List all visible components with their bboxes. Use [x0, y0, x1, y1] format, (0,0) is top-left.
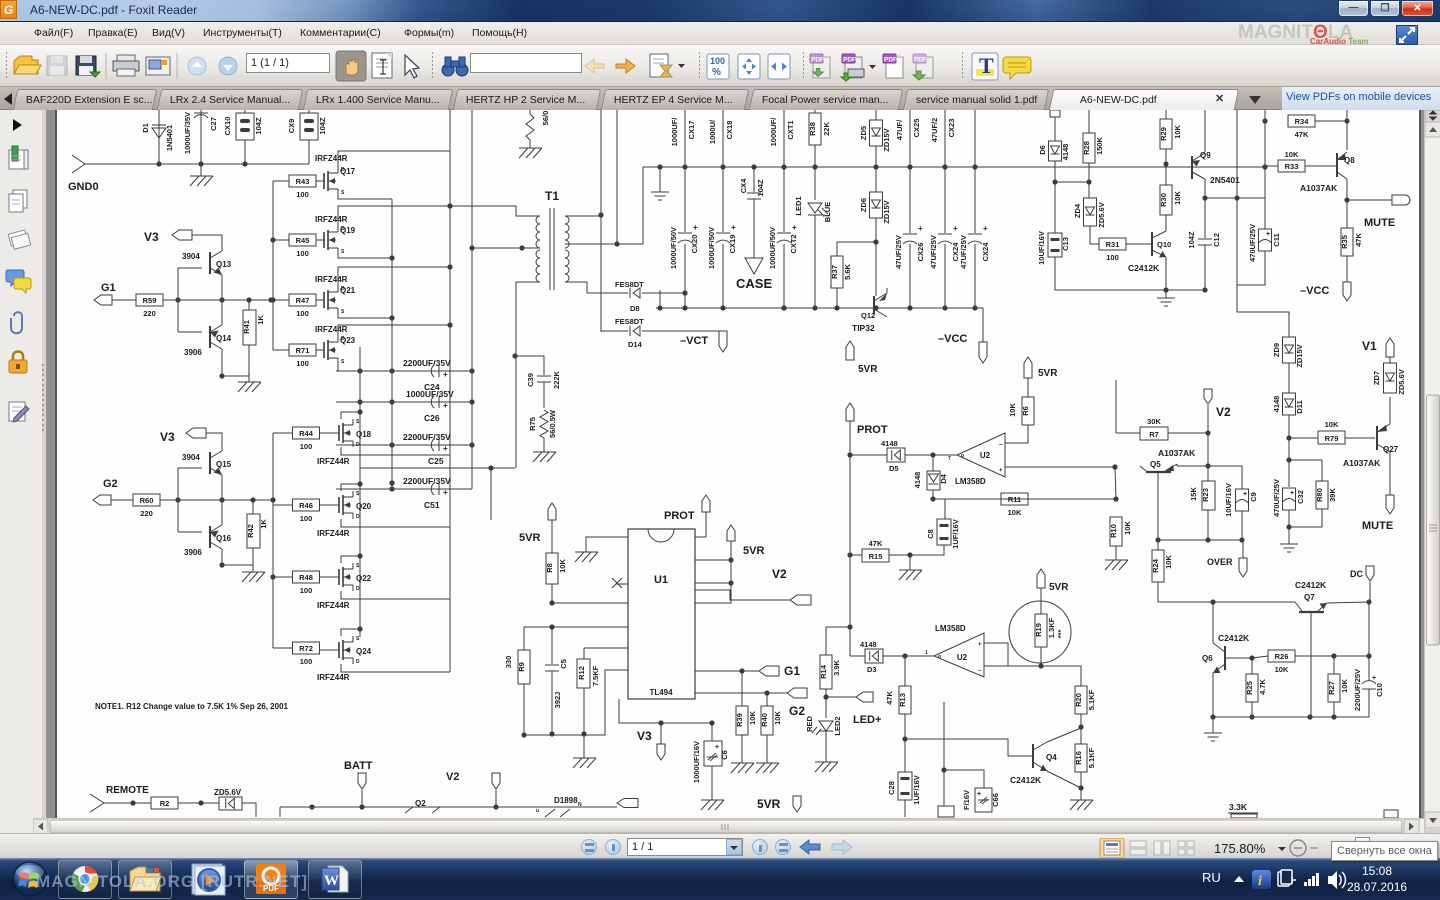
- pin 5VR bottom: [793, 796, 801, 812]
- svg-text:1N5401: 1N5401: [165, 125, 174, 151]
- resistor bottom partial: [1228, 813, 1258, 818]
- svg-text:10K: 10K: [1325, 420, 1339, 429]
- earth ground x660: [651, 192, 669, 200]
- capacitor C5: [545, 627, 568, 734]
- svg-text:LM358D: LM358D: [955, 477, 986, 486]
- print preview: [146, 57, 170, 75]
- svg-text:5.6K: 5.6K: [843, 263, 852, 279]
- svg-text:W: W: [324, 873, 339, 889]
- junction C51 row b: [389, 486, 394, 491]
- svg-text:+: +: [715, 744, 719, 751]
- hand tool pressed: [336, 51, 366, 81]
- junction y602 Q6: [1210, 599, 1215, 604]
- label Q12: [861, 311, 875, 320]
- svg-text:G2: G2: [789, 704, 805, 718]
- svg-text:–: –: [978, 668, 982, 674]
- resistor R31: [1099, 238, 1126, 262]
- transistor Q9: [1166, 110, 1205, 198]
- junction R2 ZD: [198, 800, 203, 805]
- label Q6: [1202, 654, 1213, 663]
- diode D14: [601, 326, 720, 336]
- pin G1: [94, 295, 112, 305]
- svg-text:S: S: [341, 190, 345, 196]
- junction C26 row b: [389, 399, 394, 404]
- label G2 U1: [789, 704, 805, 718]
- diode D11: [1283, 393, 1296, 415]
- pin V1: [1386, 338, 1394, 357]
- wire Q21 drain: [338, 267, 450, 286]
- svg-text:175.80%: 175.80%: [1214, 841, 1266, 856]
- resistor R79: [1289, 420, 1375, 444]
- fit page: [738, 54, 760, 79]
- svg-text:Q15: Q15: [216, 460, 232, 469]
- resistor R40: [760, 693, 782, 763]
- svg-text:5VR: 5VR: [858, 364, 878, 375]
- svg-text:GND0: GND0: [68, 181, 99, 193]
- svg-text:A1037AK: A1037AK: [1158, 448, 1196, 458]
- resistor R80: [1315, 481, 1337, 509]
- junction R29 Q9 base: [1163, 161, 1168, 166]
- capacitor CX26 column: [894, 110, 925, 308]
- label D8: [630, 304, 640, 313]
- svg-text:C27: C27: [209, 117, 218, 131]
- capacitor C28: [887, 739, 921, 817]
- transistor Q21: [316, 286, 345, 315]
- wire R15 gnd stub: [909, 555, 911, 570]
- wire OVER stub: [1242, 540, 1244, 558]
- junction y735 R9: [521, 732, 526, 737]
- junction C26 row a: [357, 399, 362, 404]
- zener ZD9 labels: [1272, 343, 1304, 368]
- wire x660 gnd stub: [659, 167, 661, 192]
- svg-text:10K: 10K: [1173, 125, 1182, 139]
- junction y717 c: [1307, 714, 1312, 719]
- wire U1 gnd: [586, 537, 628, 552]
- capacitor C12: [1187, 198, 1221, 290]
- label Q23: [340, 336, 356, 345]
- label C51 value: [403, 476, 451, 486]
- junction Q14-R41 bottom: [219, 373, 224, 378]
- junction R14 LED2: [823, 694, 828, 699]
- label LM358D U2b: [935, 624, 966, 633]
- taskbar: [0, 858, 1440, 900]
- svg-text:Q19: Q19: [340, 226, 356, 235]
- svg-text:4148: 4148: [860, 640, 877, 649]
- label 3904 Q13: [182, 252, 200, 261]
- label 4148 D5: [881, 439, 898, 448]
- junction y735 R12: [581, 731, 586, 736]
- junction x360 Q22: [357, 553, 362, 558]
- svg-text:1UF/16V: 1UF/16V: [951, 519, 960, 549]
- svg-text:R25: R25: [1245, 681, 1254, 695]
- capacitor C32: [1272, 479, 1305, 517]
- svg-text:R15: R15: [869, 552, 883, 561]
- junction R34 left: [1262, 118, 1267, 123]
- svg-text:Q8: Q8: [1344, 156, 1355, 165]
- svg-text:100: 100: [1106, 253, 1119, 262]
- junction CXT2 bus1: [781, 164, 786, 169]
- pin PROT: [846, 403, 854, 421]
- svg-text:47K: 47K: [1354, 233, 1363, 247]
- wire Q9-x1237: [1205, 197, 1265, 199]
- wire Q19 drain: [338, 206, 450, 226]
- capacitor C8: [910, 499, 960, 555]
- svg-text:R26: R26: [1275, 652, 1289, 661]
- wire Q14 collector join: [221, 300, 223, 321]
- label D3: [867, 665, 877, 674]
- svg-text:FES8DT: FES8DT: [615, 317, 644, 326]
- resistor R39: [735, 671, 757, 763]
- wire drain bus x450: [449, 110, 451, 468]
- svg-text:R40: R40: [760, 713, 769, 727]
- node REMOTE: [90, 785, 149, 812]
- printer: [113, 55, 139, 76]
- junction D5 U2 out: [930, 452, 935, 457]
- junction Q15 emitter: [219, 497, 224, 502]
- earth ground Q6: [1204, 733, 1222, 741]
- capacitor C9: [1208, 466, 1258, 517]
- diode LED1: [794, 167, 832, 308]
- wire Q20 source: [341, 484, 360, 491]
- svg-text:R43: R43: [296, 177, 310, 186]
- pin 5VR R6: [1024, 357, 1032, 378]
- pdf blank: [883, 54, 903, 78]
- label V2 right: [1216, 405, 1231, 419]
- svg-text:1000UF/50V: 1000UF/50V: [768, 227, 777, 269]
- wire U2b out: [905, 655, 934, 657]
- pdf printer: [841, 54, 876, 81]
- svg-text:5.1KF: 5.1KF: [1087, 689, 1096, 710]
- junction CX4 bus1: [751, 164, 756, 169]
- svg-text:CX9: CX9: [287, 119, 296, 134]
- svg-text:22K: 22K: [822, 122, 831, 136]
- wire x1237 vertical: [1237, 110, 1289, 337]
- svg-text:C25: C25: [428, 456, 444, 466]
- label C2412K Q4: [1010, 775, 1042, 785]
- wire V2 pin down: [1207, 405, 1209, 466]
- wire cap right bus x472: [471, 110, 473, 489]
- svg-text:R2: R2: [160, 799, 170, 808]
- svg-text:104Z: 104Z: [318, 117, 327, 135]
- svg-text:D: D: [356, 659, 360, 665]
- svg-text:V1: V1: [1362, 339, 1377, 353]
- svg-text:3906: 3906: [184, 548, 202, 557]
- wire x660 bus2 stub: [659, 290, 661, 308]
- svg-text:R38: R38: [808, 122, 817, 136]
- transistor Q27: [1377, 397, 1390, 495]
- svg-text:10K: 10K: [1275, 665, 1289, 674]
- op-amp U2b: [925, 633, 984, 677]
- svg-text:PDF: PDF: [914, 57, 927, 64]
- label Q7: [1304, 593, 1315, 602]
- junction C32 R80: [1286, 457, 1291, 462]
- svg-text:+: +: [983, 224, 988, 233]
- label C24: [424, 382, 440, 392]
- svg-text:R75: R75: [528, 417, 537, 431]
- junction R8 bottom: [549, 600, 554, 605]
- wire ZD6: [875, 167, 877, 242]
- junction C10 top node: [1366, 653, 1371, 658]
- svg-text:T1: T1: [545, 189, 559, 203]
- wire R12 gnd: [583, 735, 585, 758]
- ground below C27: [190, 176, 213, 186]
- ground below R75: [533, 452, 556, 462]
- svg-text:+: +: [999, 468, 1003, 474]
- svg-text:N: N: [578, 802, 582, 808]
- svg-text:DC: DC: [1350, 569, 1363, 579]
- svg-text:1000UF/50V: 1000UF/50V: [707, 227, 716, 269]
- earth ground C32: [1280, 544, 1298, 552]
- resistor R7: [1116, 417, 1208, 440]
- svg-text:ZD7: ZD7: [1372, 371, 1381, 385]
- svg-text:47UF/25V: 47UF/25V: [929, 235, 938, 269]
- svg-text:V3: V3: [637, 729, 652, 743]
- resistor R9: [504, 650, 530, 735]
- pin R8 5VR: [548, 503, 556, 520]
- resistor R8: [545, 520, 567, 603]
- label G2: [103, 478, 118, 490]
- junction base Q13Q14: [175, 297, 180, 302]
- junction T1 sec tap: [614, 241, 619, 246]
- junction V3 line: [658, 720, 663, 725]
- svg-text:OVER: OVER: [1207, 557, 1233, 567]
- pin V2 right: [1204, 389, 1212, 404]
- wire source bus x392: [391, 199, 393, 489]
- svg-text:10K: 10K: [1164, 555, 1173, 569]
- svg-text:RED: RED: [805, 716, 814, 732]
- label DC: [1350, 569, 1363, 579]
- svg-text:D5: D5: [889, 464, 899, 473]
- junction CX24b bus1: [972, 164, 977, 169]
- wire Q24 source: [341, 629, 360, 636]
- wire R47 left: [273, 299, 289, 301]
- svg-text:Q20: Q20: [356, 502, 372, 511]
- wire PROT vertical: [849, 421, 851, 656]
- svg-text:C8: C8: [926, 529, 935, 539]
- junction CX19 bus1: [720, 164, 725, 169]
- pin LED+: [856, 692, 873, 702]
- svg-text:+: +: [443, 488, 448, 497]
- pin 5VR R19: [1037, 569, 1045, 588]
- label Q4: [1046, 753, 1057, 762]
- junction CX24 bus1: [942, 164, 947, 169]
- pin D1898 flag: [617, 799, 638, 808]
- label Q10: [1157, 240, 1171, 249]
- junction D6 R28: [1052, 179, 1057, 184]
- svg-text:CX23: CX23: [947, 119, 956, 138]
- wire Q4 base line: [905, 739, 1033, 756]
- label FES8DT D14: [615, 317, 644, 326]
- svg-text:Q5: Q5: [1150, 460, 1161, 469]
- junction y468-x491: [488, 465, 493, 470]
- capacitor C39: [526, 370, 561, 389]
- typewriter T: [972, 53, 998, 80]
- svg-text:47UF/: 47UF/: [895, 119, 904, 140]
- svg-text:5VR: 5VR: [757, 797, 781, 811]
- capacitor CX10: [223, 110, 263, 164]
- svg-text:1000UF/: 1000UF/: [670, 117, 679, 147]
- title bar: [0, 0, 1440, 22]
- label Q2: [415, 799, 426, 808]
- svg-text:47K: 47K: [1295, 130, 1309, 139]
- transformer T1 primary: [450, 206, 540, 282]
- arrow cursor: [405, 55, 419, 78]
- wire R59-Q13Q14: [163, 299, 273, 301]
- wire R72 left: [273, 647, 293, 649]
- wire base Q16: [178, 500, 202, 532]
- svg-text:Q2: Q2: [415, 799, 426, 808]
- svg-text:7: 7: [948, 456, 951, 462]
- label V2 bottom: [446, 771, 459, 783]
- svg-text:15K: 15K: [1189, 487, 1198, 501]
- svg-text:ZD15V: ZD15V: [882, 200, 891, 223]
- junction CX26 bus2: [907, 305, 912, 310]
- junction CX26 bus1: [907, 164, 912, 169]
- resistor R23: [1189, 466, 1215, 540]
- svg-text:Q27: Q27: [1383, 445, 1399, 454]
- junction G2 R40: [764, 690, 769, 695]
- junction gate bus R45: [270, 237, 275, 242]
- svg-text:IRFZ44R: IRFZ44R: [315, 154, 348, 163]
- svg-text:R7: R7: [1149, 430, 1159, 439]
- node CASE: [745, 258, 763, 274]
- svg-text:D11: D11: [1295, 400, 1304, 413]
- svg-text:104Z: 104Z: [254, 117, 263, 135]
- wire R26 left: [1252, 656, 1268, 658]
- svg-text:1.3KF: 1.3KF: [1047, 617, 1056, 638]
- svg-text:o: o: [961, 453, 964, 459]
- junction U1 pin a: [728, 557, 733, 562]
- svg-text:2200UF/35V: 2200UF/35V: [403, 358, 451, 368]
- junction PROT R15: [847, 552, 852, 557]
- junction C24 row b: [389, 368, 394, 373]
- pin G2 U1: [787, 688, 807, 698]
- resistor R24: [1151, 540, 1173, 602]
- capacitor C26: [431, 396, 448, 410]
- label 5VR R6: [1038, 368, 1058, 379]
- resistor R13: [885, 656, 911, 739]
- junction CX20 bus1: [682, 164, 687, 169]
- label Q14: [216, 334, 232, 343]
- svg-text:+: +: [977, 791, 981, 798]
- wire C27 ground stub: [200, 164, 202, 176]
- resistor R46: [293, 499, 320, 523]
- svg-text:R35: R35: [1340, 235, 1349, 249]
- transistor Q17: [316, 167, 345, 196]
- wire R10 link: [1115, 467, 1116, 499]
- svg-text:Q16: Q16: [216, 534, 232, 543]
- wire R26 right: [1295, 655, 1369, 657]
- wire T1 bottom to bus: [515, 282, 517, 468]
- wire bus2 y308: [656, 308, 983, 342]
- svg-text:PROT: PROT: [664, 510, 695, 522]
- svg-text:R44: R44: [299, 429, 314, 438]
- label 4148 D3: [860, 640, 877, 649]
- wire Q17 source: [338, 195, 392, 199]
- svg-text:CX17: CX17: [687, 121, 696, 140]
- junction y540 b: [1205, 537, 1210, 542]
- wire R43 left: [273, 180, 289, 182]
- capacitor CX24b column: [959, 110, 990, 308]
- svg-text:Q12: Q12: [861, 311, 875, 320]
- resistor R25: [1245, 658, 1267, 717]
- transistor Q6: [1213, 602, 1225, 717]
- svg-text:330: 330: [504, 656, 513, 669]
- svg-text:C32: C32: [1296, 490, 1305, 504]
- svg-text:S: S: [356, 563, 360, 569]
- transistor Q8: [1337, 152, 1347, 200]
- resistor R45: [289, 234, 316, 258]
- label IRFZ44R Q24: [317, 673, 350, 682]
- resistor R56 top: [526, 110, 550, 140]
- resistor R59: [136, 294, 163, 318]
- open folder: [14, 56, 41, 74]
- pdf from file: [810, 54, 830, 78]
- junction bus2 x660: [657, 305, 662, 310]
- junction base Q15Q16: [175, 497, 180, 502]
- label Q13: [216, 260, 232, 269]
- diode D4: [913, 455, 948, 499]
- svg-text:10UF/16V: 10UF/16V: [1037, 231, 1046, 265]
- svg-text:100: 100: [296, 249, 309, 258]
- wire R42 ground stub: [252, 565, 254, 572]
- svg-text:5VR: 5VR: [1038, 368, 1058, 379]
- svg-text:100: 100: [296, 359, 309, 368]
- svg-text:T: T: [979, 53, 994, 78]
- junction x515-C39: [512, 353, 517, 358]
- wire R31-Q10: [1126, 243, 1152, 245]
- svg-text:S: S: [356, 636, 360, 642]
- svg-text:5VR: 5VR: [519, 532, 540, 544]
- label 3906 Q14: [184, 348, 202, 357]
- resistor R16: [1074, 727, 1096, 788]
- zener ZD4 labels: [1073, 202, 1106, 227]
- svg-text:3.9K: 3.9K: [832, 659, 841, 675]
- pin PROT U1: [702, 495, 710, 512]
- resistor R33: [1265, 150, 1337, 172]
- pin -VCT: [719, 331, 727, 352]
- junction y717 b: [1249, 714, 1254, 719]
- wire Q24 drain: [341, 664, 450, 672]
- label C2412K Q10: [1128, 263, 1160, 273]
- svg-text:10K: 10K: [1173, 191, 1182, 205]
- resistor R10: [1109, 517, 1132, 560]
- junction y717 a: [1210, 714, 1215, 719]
- op-amp U1 TL494 body: [628, 529, 695, 699]
- svg-text:A1037AK: A1037AK: [1343, 458, 1381, 468]
- label 5VR U1: [743, 545, 764, 557]
- ground below R42: [242, 572, 265, 582]
- junction C66 branch: [941, 767, 946, 772]
- svg-text:1: 1: [925, 650, 928, 656]
- ground top center: [519, 148, 542, 158]
- svg-text:CX4: CX4: [739, 178, 748, 193]
- menu bar: [0, 22, 1440, 45]
- svg-text:100: 100: [300, 514, 313, 523]
- wire R41 ground stub: [248, 376, 250, 382]
- svg-text:LM358D: LM358D: [935, 624, 966, 633]
- svg-text:V2: V2: [446, 771, 459, 783]
- svg-text:R33: R33: [1285, 162, 1299, 171]
- capacitor C24: [431, 365, 448, 379]
- capacitor CX24 column: [929, 110, 960, 308]
- transistor Q24: [331, 636, 360, 665]
- pin G2: [93, 495, 111, 505]
- wire R43-Q17: [315, 180, 317, 182]
- svg-text:D: D: [356, 586, 360, 592]
- label ZD5.6V bottom: [214, 788, 242, 797]
- junction D1-GND0: [156, 161, 161, 166]
